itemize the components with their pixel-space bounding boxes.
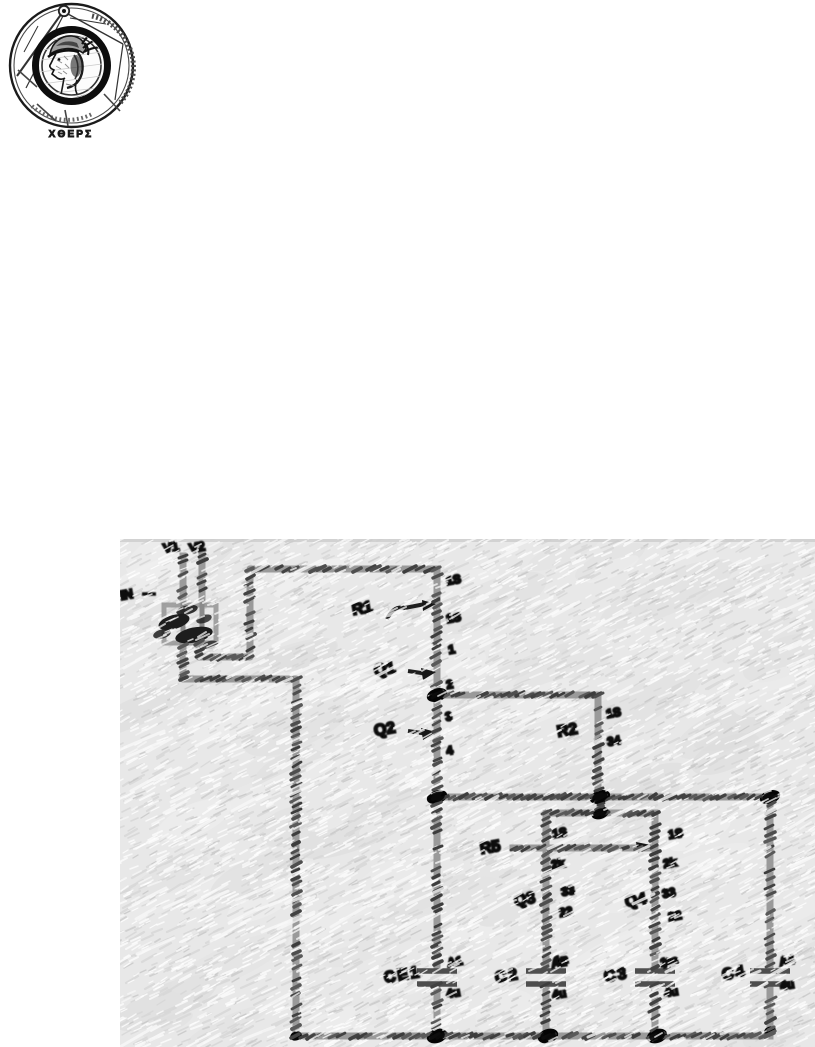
hermes head: helmet crown [50, 36, 86, 54]
spokes lower [18, 70, 120, 126]
base/wiper arrows [387, 604, 428, 734]
wire [437, 695, 598, 797]
capacitor C2 plates [526, 968, 566, 974]
pivot circle [59, 6, 69, 16]
wire [767, 797, 774, 969]
face profile [50, 54, 65, 79]
wire [180, 556, 187, 599]
svg-text:34: 34 [606, 733, 622, 749]
capacitor C3 plates [635, 968, 675, 974]
component cluster (input transducer) [164, 599, 216, 643]
bust base [55, 94, 89, 99]
wire [199, 569, 437, 657]
wire [434, 569, 441, 969]
wire [513, 845, 648, 852]
hair back [67, 53, 83, 88]
capacitor C1 plates [417, 971, 790, 984]
inner heavy ring [36, 30, 108, 102]
capacitor C4 plates [750, 968, 790, 974]
face shading hatches [56, 56, 69, 74]
eye [58, 58, 61, 61]
tick arc lower (lettering ring) [32, 106, 92, 120]
wire [437, 794, 770, 801]
neck [61, 78, 64, 94]
scanned schematic figure [120, 539, 815, 1047]
wings [82, 28, 101, 55]
helmet brim [48, 50, 79, 57]
svg-text:2k: 2k [662, 855, 678, 871]
wire [597, 797, 604, 813]
junction dots [289, 686, 782, 1046]
compass legs [17, 13, 123, 100]
tick arc right (lettering ring) [92, 16, 133, 103]
university emblem logo [4, 0, 144, 150]
svg-text:ΧΘΕΡΣ: ΧΘΕΡΣ [49, 129, 94, 140]
interior engraving hatch [40, 36, 102, 94]
emblem outer circle [10, 4, 133, 127]
svg-text:1S: 1S [605, 705, 622, 721]
